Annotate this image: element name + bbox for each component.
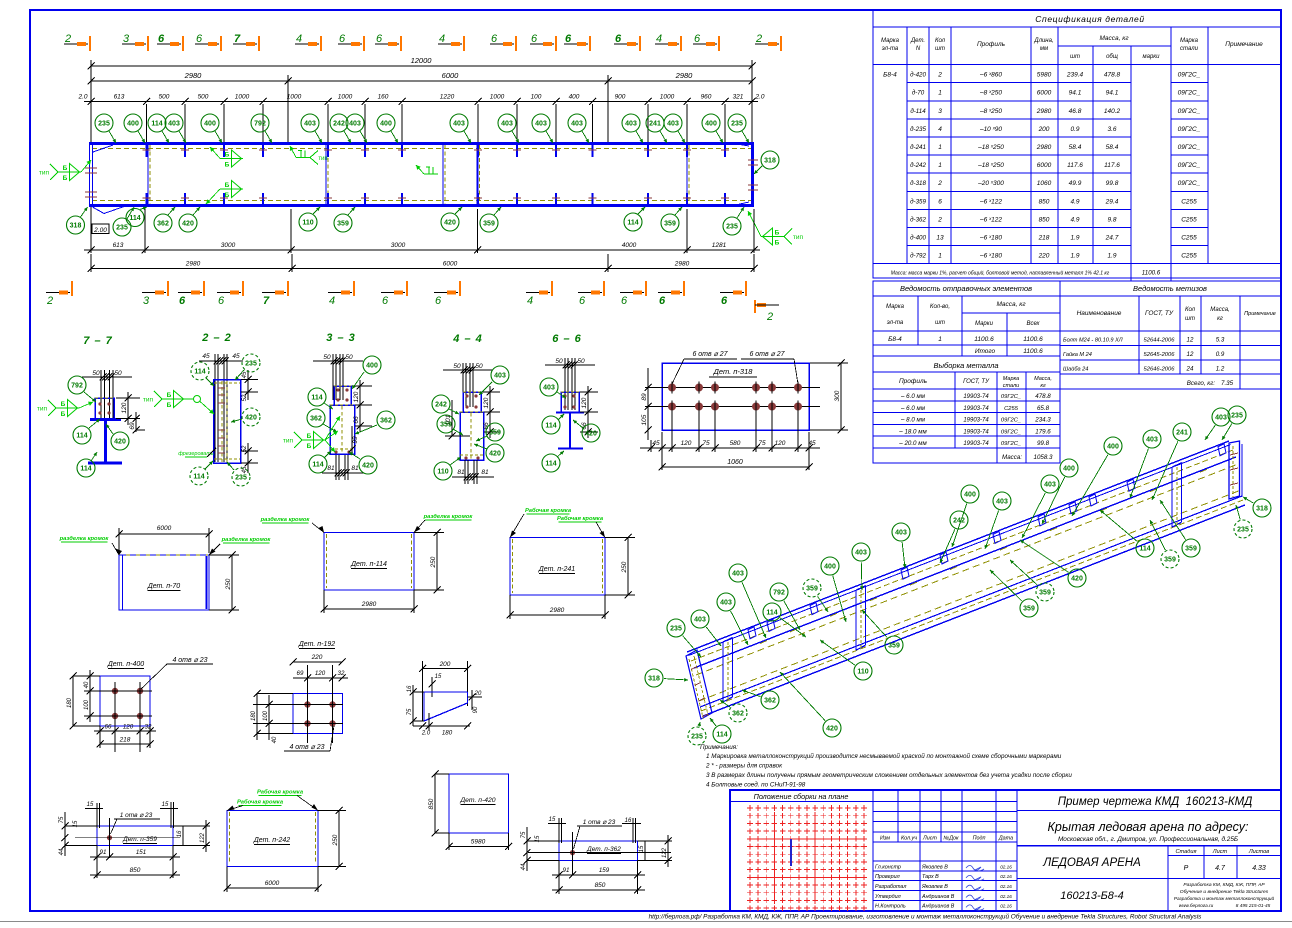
svg-text:359: 359 bbox=[888, 642, 900, 649]
callout 114 bbox=[77, 459, 95, 477]
callout 420 bbox=[242, 408, 260, 426]
callout 400 bbox=[1104, 437, 1122, 455]
svg-text:6: 6 bbox=[694, 33, 701, 45]
svg-text:45: 45 bbox=[242, 371, 248, 378]
p-359 bottom dims bbox=[90, 856, 180, 858]
svg-text:362: 362 bbox=[732, 710, 744, 717]
svg-text:Н.Контроль: Н.Контроль bbox=[875, 904, 906, 910]
callout 400 bbox=[961, 485, 979, 503]
svg-text:Разработка КМ, КМД, КЖ, ППР, А: Разработка КМ, КМД, КЖ, ППР, АР bbox=[1183, 882, 1265, 888]
svg-text:Разработка и монтаж металлокон: Разработка и монтаж металлоконструкций bbox=[1174, 895, 1275, 901]
svg-text:–6 ˣ122: –6 ˣ122 bbox=[979, 216, 1002, 223]
callout 403 bbox=[450, 114, 468, 132]
svg-text:4: 4 bbox=[329, 295, 335, 307]
svg-text:420: 420 bbox=[245, 414, 257, 421]
svg-text:160213-Б8-4: 160213-Б8-4 bbox=[1060, 890, 1123, 902]
svg-text:114: 114 bbox=[766, 609, 777, 616]
svg-text:50: 50 bbox=[577, 358, 585, 365]
svg-text:3000: 3000 bbox=[391, 242, 406, 249]
7-7 plate box bbox=[95, 398, 114, 419]
bolt hole d27 bbox=[668, 403, 676, 411]
svg-text:09Г2С_: 09Г2С_ bbox=[1178, 90, 1201, 97]
svg-text:420: 420 bbox=[1071, 575, 1083, 582]
svg-text:Кол: Кол bbox=[935, 38, 946, 44]
svg-text:6: 6 bbox=[218, 295, 225, 307]
svg-text:114: 114 bbox=[76, 432, 87, 439]
svg-text:403: 403 bbox=[543, 384, 555, 391]
svg-text:75: 75 bbox=[758, 440, 766, 447]
svg-text:241: 241 bbox=[1176, 429, 1188, 436]
4-4 right dims bbox=[489, 386, 491, 418]
svg-text:6 отв ⌀ 27: 6 отв ⌀ 27 bbox=[692, 351, 728, 358]
3d beam top flange near edge bbox=[694, 457, 1236, 668]
svg-text:99.8: 99.8 bbox=[1106, 180, 1119, 187]
beam top flange bbox=[89, 142, 754, 145]
callout 359 bbox=[334, 214, 352, 232]
svg-text:д-235: д-235 bbox=[910, 126, 926, 133]
svg-text:Дет. п-420: Дет. п-420 bbox=[459, 797, 495, 804]
svg-text:403: 403 bbox=[895, 529, 907, 536]
svg-text:159: 159 bbox=[599, 867, 610, 874]
svg-text:580: 580 bbox=[730, 440, 741, 447]
svg-text:д-359: д-359 bbox=[910, 198, 926, 205]
svg-text:Рабочая кромка: Рабочая кромка bbox=[257, 789, 304, 796]
svg-text:120: 120 bbox=[353, 391, 360, 402]
p-400 left dims bbox=[89, 670, 91, 722]
svg-text:4: 4 bbox=[656, 33, 662, 45]
svg-text:Масса, кг: Масса, кг bbox=[1099, 35, 1129, 42]
callout 318 bbox=[645, 669, 663, 687]
svg-text:5.3: 5.3 bbox=[1216, 337, 1225, 344]
callout 114 bbox=[309, 455, 327, 473]
callout 362 bbox=[307, 409, 325, 427]
weld symbol site bbox=[296, 157, 310, 159]
svg-text:09Г2С_: 09Г2С_ bbox=[1178, 108, 1201, 115]
svg-text:6: 6 bbox=[621, 295, 628, 307]
callout 235 bbox=[688, 727, 706, 745]
svg-text:02.16: 02.16 bbox=[1000, 894, 1012, 899]
svg-text:02.16: 02.16 bbox=[1000, 904, 1012, 909]
svg-text:–18 ˣ250: –18 ˣ250 bbox=[977, 144, 1004, 151]
p-192 left dims bbox=[268, 695, 270, 740]
svg-text:Лист: Лист bbox=[922, 836, 937, 842]
callout 114 bbox=[308, 388, 326, 406]
svg-text:Кол.уч: Кол.уч bbox=[901, 836, 917, 842]
svg-text:0.9: 0.9 bbox=[1070, 126, 1079, 133]
6-6 tee bbox=[556, 412, 584, 414]
svg-text:Рабочая кромка: Рабочая кромка bbox=[525, 507, 572, 514]
svg-text:114: 114 bbox=[80, 465, 91, 472]
weld symbol B/B bbox=[220, 188, 243, 190]
svg-text:Наименование: Наименование bbox=[1077, 310, 1122, 317]
svg-text:403: 403 bbox=[453, 120, 465, 127]
svg-text:420: 420 bbox=[585, 430, 597, 437]
svg-text:6: 6 bbox=[435, 295, 442, 307]
svg-text:4 отв ⌀ 23: 4 отв ⌀ 23 bbox=[172, 657, 207, 664]
svg-text:2: 2 bbox=[937, 72, 942, 79]
svg-text:6: 6 bbox=[579, 295, 586, 307]
svg-text:Изм: Изм bbox=[880, 836, 890, 842]
bolt hole d27 bbox=[752, 384, 760, 392]
title main text bbox=[1017, 810, 1281, 812]
svg-text:Гайка М 24: Гайка М 24 bbox=[1063, 351, 1092, 358]
svg-text:140.2: 140.2 bbox=[1104, 108, 1121, 115]
svg-text:69: 69 bbox=[297, 670, 304, 677]
svg-text:6000: 6000 bbox=[1037, 90, 1052, 97]
svg-text:1.9: 1.9 bbox=[1107, 253, 1116, 260]
callout 114 bbox=[126, 209, 144, 227]
svg-text:д-114: д-114 bbox=[910, 108, 926, 115]
svg-text:разделка кромок: разделка кромок bbox=[221, 537, 272, 543]
svg-text:www.берлога.ru: www.берлога.ru bbox=[1179, 903, 1214, 908]
callout 400 bbox=[702, 114, 720, 132]
svg-text:3.6: 3.6 bbox=[1107, 126, 1116, 133]
callout 420 bbox=[441, 213, 459, 231]
callout 318 bbox=[1253, 499, 1271, 517]
3-3 right dims bbox=[359, 380, 361, 412]
svg-text:Положение сборки на плане: Положение сборки на плане bbox=[754, 792, 849, 801]
svg-text:403: 403 bbox=[694, 616, 706, 623]
callout 362 bbox=[761, 691, 779, 709]
svg-text:180: 180 bbox=[67, 697, 73, 708]
callout 359 bbox=[885, 636, 903, 654]
bolt hole d27 bbox=[752, 403, 760, 411]
3d left end plate p-318 bbox=[686, 650, 712, 719]
svg-text:792: 792 bbox=[71, 382, 83, 389]
svg-text:99.8: 99.8 bbox=[1037, 440, 1050, 447]
svg-text:6: 6 bbox=[339, 33, 346, 45]
svg-text:420: 420 bbox=[489, 450, 501, 457]
callout 420 bbox=[1068, 569, 1086, 587]
svg-text:114: 114 bbox=[311, 394, 322, 401]
svg-text:5980: 5980 bbox=[471, 839, 486, 846]
svg-text:239.4: 239.4 bbox=[1066, 72, 1084, 79]
callout 114 bbox=[713, 725, 731, 743]
bolt hole d27 bbox=[768, 403, 776, 411]
4-4 left dim 101 bbox=[451, 400, 453, 436]
svg-text:403: 403 bbox=[501, 120, 513, 127]
svg-text:91: 91 bbox=[100, 849, 107, 856]
svg-text:09Г2С_: 09Г2С_ bbox=[1178, 162, 1201, 169]
svg-text:6 – 6: 6 – 6 bbox=[552, 333, 581, 345]
svg-text:6: 6 bbox=[196, 33, 203, 45]
svg-text:Масса,: Масса, bbox=[1034, 376, 1052, 382]
svg-text:6 отв ⌀ 27: 6 отв ⌀ 27 bbox=[749, 351, 785, 358]
svg-text:6: 6 bbox=[615, 33, 622, 45]
svg-text:242: 242 bbox=[435, 401, 447, 408]
svg-text:2980: 2980 bbox=[675, 71, 694, 80]
svg-text:2980: 2980 bbox=[549, 607, 565, 614]
detail p-362 bbox=[559, 841, 638, 861]
svg-text:89: 89 bbox=[641, 393, 648, 401]
dim line small segments top bbox=[84, 101, 758, 103]
callout 403 bbox=[1143, 430, 1161, 448]
svg-text:40: 40 bbox=[272, 736, 278, 743]
svg-text:6000: 6000 bbox=[443, 261, 458, 268]
svg-text:Б: Б bbox=[225, 152, 230, 159]
svg-text:50: 50 bbox=[453, 363, 461, 370]
svg-text:318: 318 bbox=[648, 675, 660, 682]
svg-text:180: 180 bbox=[442, 730, 453, 737]
svg-text:1060: 1060 bbox=[727, 459, 743, 466]
svg-text:850: 850 bbox=[428, 798, 435, 809]
stage cells bbox=[1167, 846, 1169, 911]
svg-text:110: 110 bbox=[437, 468, 448, 475]
svg-text:81: 81 bbox=[351, 465, 359, 472]
callout 110 bbox=[434, 462, 452, 480]
weld symbol site bbox=[424, 173, 438, 175]
svg-text:75: 75 bbox=[521, 831, 527, 838]
svg-text:6: 6 bbox=[158, 33, 165, 45]
svg-text:4.9: 4.9 bbox=[1070, 216, 1079, 223]
svg-text:Б: Б bbox=[61, 411, 66, 418]
p-400 bottom dims bbox=[94, 730, 156, 732]
svg-text:Б: Б bbox=[307, 443, 312, 450]
svg-text:12: 12 bbox=[1187, 351, 1194, 358]
callout 114 bbox=[190, 467, 208, 485]
svg-text:2980: 2980 bbox=[361, 601, 377, 608]
svg-text:4000: 4000 bbox=[622, 242, 637, 249]
callout 420 bbox=[823, 719, 841, 737]
callout 400 bbox=[377, 114, 395, 132]
svg-text:Масса,: Масса, bbox=[1210, 307, 1229, 313]
svg-text:Примечания:: Примечания: bbox=[700, 744, 738, 751]
bolt hole d27 bbox=[711, 403, 719, 411]
beam hidden line top bbox=[92, 148, 752, 150]
svg-text:шт: шт bbox=[935, 46, 945, 52]
svg-text:– 8.0 мм: – 8.0 мм bbox=[900, 417, 926, 424]
svg-text:850: 850 bbox=[1039, 198, 1050, 205]
svg-text:Крытая ледовая арена по адресу: Крытая ледовая арена по адресу: bbox=[1048, 820, 1249, 834]
3-3 top plate bbox=[334, 386, 351, 405]
svg-text:– 6.0 мм: – 6.0 мм bbox=[900, 393, 926, 400]
svg-text:12000: 12000 bbox=[411, 56, 433, 65]
svg-text:19903-74: 19903-74 bbox=[963, 441, 989, 447]
svg-text:403: 403 bbox=[732, 570, 744, 577]
svg-text:Шайба 24: Шайба 24 bbox=[1063, 365, 1088, 372]
svg-text:6: 6 bbox=[531, 33, 538, 45]
svg-text:2 * - размеры для справок: 2 * - размеры для справок bbox=[705, 762, 783, 770]
svg-text:стали: стали bbox=[1003, 383, 1019, 389]
svg-text:1: 1 bbox=[938, 90, 942, 97]
svg-text:09Г2С_: 09Г2С_ bbox=[1178, 144, 1201, 151]
svg-text:235: 235 bbox=[691, 733, 703, 740]
svg-text:Кол-во,: Кол-во, bbox=[930, 304, 950, 310]
callout 359 bbox=[437, 415, 455, 433]
svg-text:403: 403 bbox=[1044, 481, 1056, 488]
svg-text:235: 235 bbox=[670, 625, 682, 632]
svg-text:кг: кг bbox=[1217, 316, 1223, 322]
dim line 2980-6000-2980 bottom bbox=[91, 268, 754, 270]
svg-text:–8 ˣ250: –8 ˣ250 bbox=[979, 90, 1002, 97]
svg-text:403: 403 bbox=[349, 120, 361, 127]
svg-text:2: 2 bbox=[755, 33, 762, 45]
svg-text:д-242: д-242 bbox=[910, 162, 926, 169]
callout 403 bbox=[532, 114, 550, 132]
svg-text:235: 235 bbox=[245, 360, 257, 367]
svg-text:Дет. п-192: Дет. п-192 bbox=[298, 641, 335, 648]
4-4 web plate bbox=[460, 412, 484, 460]
3-3 web plate bbox=[330, 405, 355, 454]
callout 110 bbox=[299, 213, 317, 231]
svg-text:16: 16 bbox=[177, 830, 183, 837]
svg-text:разделка кромок: разделка кромок bbox=[260, 517, 311, 523]
svg-text:д-420: д-420 bbox=[910, 72, 926, 79]
beam bottom flange bbox=[89, 204, 754, 207]
svg-text:09Г2С_: 09Г2С_ bbox=[1001, 441, 1021, 447]
svg-text:400: 400 bbox=[569, 94, 580, 101]
callout 403 bbox=[346, 114, 364, 132]
svg-text:220: 220 bbox=[311, 654, 323, 661]
svg-text:235: 235 bbox=[731, 120, 743, 127]
callout 400 bbox=[201, 114, 219, 132]
weld leader 2-2 bbox=[194, 396, 201, 403]
svg-text:45: 45 bbox=[202, 353, 210, 360]
svg-text:Пример чертежа КМД 160213-КМД: Пример чертежа КМД 160213-КМД bbox=[1058, 796, 1253, 808]
callout 403 bbox=[993, 492, 1011, 510]
svg-text:179.6: 179.6 bbox=[1035, 428, 1051, 435]
svg-text:Б: Б bbox=[61, 401, 66, 408]
svg-text:Проверил: Проверил bbox=[875, 874, 900, 880]
signature scribble bbox=[966, 866, 984, 871]
svg-text:3 В размерах длины получены п: 3 В размерах длины получены прямым геоме… bbox=[706, 771, 1072, 779]
svg-text:2.0: 2.0 bbox=[77, 94, 87, 101]
svg-text:359: 359 bbox=[806, 585, 818, 592]
svg-text:4.7: 4.7 bbox=[1215, 865, 1226, 872]
svg-text:09Г2С_: 09Г2С_ bbox=[1001, 429, 1021, 435]
svg-text:1000: 1000 bbox=[660, 94, 675, 101]
svg-text:1: 1 bbox=[938, 336, 942, 343]
svg-text:403: 403 bbox=[168, 120, 180, 127]
svg-text:4: 4 bbox=[439, 33, 445, 45]
weld tack marks left end bbox=[85, 167, 97, 169]
3d beam web hidden line lower bbox=[699, 490, 1241, 701]
callout 362 bbox=[377, 411, 395, 429]
signature scribble bbox=[966, 895, 984, 900]
dim line 2980-6000-2980 top bbox=[91, 80, 752, 82]
callout 235 bbox=[1234, 520, 1252, 538]
p-362 left dims bbox=[526, 827, 528, 871]
callout 359 bbox=[661, 214, 679, 232]
callout 403 bbox=[301, 114, 319, 132]
svg-text:160: 160 bbox=[378, 94, 389, 101]
svg-text:Дет. п-362: Дет. п-362 bbox=[586, 846, 621, 853]
svg-text:114: 114 bbox=[545, 460, 556, 467]
svg-text:1: 1 bbox=[938, 162, 942, 169]
svg-text:45: 45 bbox=[232, 353, 240, 360]
svg-text:– 6.0 мм: – 6.0 мм bbox=[900, 405, 926, 412]
svg-text:49.9: 49.9 bbox=[1069, 180, 1082, 187]
callout 235 bbox=[113, 218, 131, 236]
dim 2.00 box bbox=[92, 224, 109, 234]
3d beam bottom flange olive edge bbox=[701, 500, 1243, 711]
svg-text:Марка: Марка bbox=[886, 304, 905, 310]
svg-text:94.1: 94.1 bbox=[1106, 90, 1119, 97]
svg-text:2: 2 bbox=[937, 180, 942, 187]
detail p-359 bbox=[97, 826, 173, 846]
bolt hole d27 bbox=[768, 384, 776, 392]
svg-text:1.2: 1.2 bbox=[1216, 365, 1225, 372]
svg-text:403: 403 bbox=[720, 599, 732, 606]
3d beam bottom flange near edge bbox=[703, 505, 1245, 716]
svg-text:1000: 1000 bbox=[490, 94, 505, 101]
signature scribble bbox=[966, 905, 984, 910]
svg-text:400: 400 bbox=[366, 362, 378, 369]
svg-text:2980: 2980 bbox=[1036, 144, 1052, 151]
svg-text:400: 400 bbox=[380, 120, 392, 127]
3d beam top flange inner edge bbox=[691, 450, 1233, 661]
beam web stiffener verticals bbox=[147, 145, 149, 204]
svg-text:2.0: 2.0 bbox=[754, 94, 764, 101]
svg-text:6000: 6000 bbox=[157, 525, 172, 532]
svg-text:Гл.констр: Гл.констр bbox=[875, 864, 901, 870]
svg-text:1 отв ⌀ 23: 1 отв ⌀ 23 bbox=[583, 819, 616, 826]
svg-text:120: 120 bbox=[121, 402, 128, 413]
svg-text:– 20.0 мм: – 20.0 мм bbox=[898, 440, 927, 447]
svg-text:114: 114 bbox=[1139, 545, 1150, 552]
svg-text:850: 850 bbox=[595, 882, 606, 889]
callout 114 bbox=[1136, 539, 1154, 557]
svg-text:Тарх В: Тарх В bbox=[922, 874, 939, 880]
svg-text:242: 242 bbox=[953, 517, 965, 524]
p-318 total dim 1060 bbox=[662, 466, 809, 468]
svg-text:400: 400 bbox=[705, 120, 717, 127]
svg-text:420: 420 bbox=[114, 438, 126, 445]
p-235 dims bbox=[412, 685, 414, 726]
svg-text:ГОСТ, ТУ: ГОСТ, ТУ bbox=[963, 379, 990, 385]
svg-text:200: 200 bbox=[1038, 126, 1050, 133]
svg-text:–18 ˣ250: –18 ˣ250 bbox=[977, 162, 1004, 169]
svg-text:235: 235 bbox=[116, 224, 128, 231]
svg-text:478.8: 478.8 bbox=[1035, 393, 1051, 400]
svg-text:Спецификация деталей: Спецификация деталей bbox=[1035, 14, 1144, 24]
svg-text:359: 359 bbox=[664, 220, 676, 227]
svg-text:24: 24 bbox=[1186, 365, 1194, 372]
svg-text:–6 ˣ860: –6 ˣ860 bbox=[979, 72, 1002, 79]
svg-text:6: 6 bbox=[491, 33, 498, 45]
svg-text:02.16: 02.16 bbox=[1000, 864, 1012, 869]
svg-text:58.4: 58.4 bbox=[1069, 144, 1082, 151]
metal selection table bbox=[873, 356, 1060, 463]
svg-text:С255: С255 bbox=[1181, 198, 1197, 205]
svg-text:500: 500 bbox=[198, 94, 209, 101]
svg-text:Андрианов В: Андрианов В bbox=[921, 904, 955, 910]
svg-text:235: 235 bbox=[1231, 412, 1243, 419]
svg-text:д-70: д-70 bbox=[912, 90, 925, 97]
p-318 left dims 89 105 bbox=[647, 368, 649, 440]
svg-text:2 – 2: 2 – 2 bbox=[201, 332, 231, 344]
callout 403 bbox=[498, 114, 516, 132]
svg-text:100: 100 bbox=[84, 699, 90, 710]
callout 792 bbox=[770, 583, 788, 601]
svg-text:Ведомость отправочных элементо: Ведомость отправочных элементов bbox=[900, 284, 1032, 293]
callout 420 bbox=[111, 432, 129, 450]
3d right end plate p-318 bbox=[1229, 441, 1240, 499]
svg-text:9.8: 9.8 bbox=[1107, 216, 1116, 223]
svg-text:75: 75 bbox=[407, 708, 413, 715]
svg-text:850: 850 bbox=[1039, 216, 1050, 223]
svg-text:–20 ˣ300: –20 ˣ300 bbox=[977, 180, 1004, 187]
svg-text:117.6: 117.6 bbox=[1104, 162, 1120, 169]
svg-text:4 Болтовые соед. по СНиП-91-9: 4 Болтовые соед. по СНиП-91-98 bbox=[706, 781, 806, 789]
callout 235 bbox=[667, 619, 685, 637]
detail p-241 bbox=[510, 538, 605, 596]
svg-text:Разработал: Разработал bbox=[875, 884, 906, 890]
svg-text:250: 250 bbox=[621, 561, 628, 573]
svg-text:1 отв ⌀ 23: 1 отв ⌀ 23 bbox=[120, 812, 153, 819]
svg-text:Длина,: Длина, bbox=[1033, 38, 1053, 44]
bolt hole d27 bbox=[711, 384, 719, 392]
